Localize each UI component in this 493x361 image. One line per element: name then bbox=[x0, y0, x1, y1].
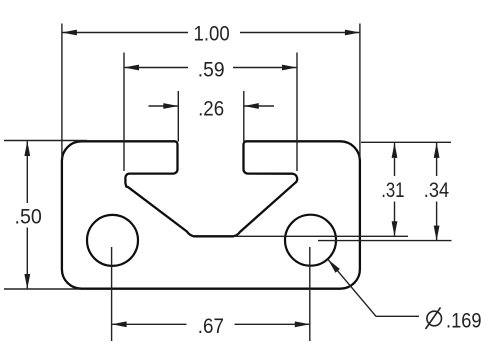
arrow .50 top bbox=[24, 141, 30, 156]
extension line .26 left bbox=[177, 91, 179, 142]
dimension line .26 right shaft bbox=[244, 105, 274, 107]
dimension line .59 bbox=[125, 67, 188, 69]
dimension line .67 bbox=[112, 323, 186, 325]
extension line .34 bottom (hole centre plane) bbox=[318, 240, 452, 242]
svg-text:.34: .34 bbox=[424, 178, 449, 202]
svg-text:.31: .31 bbox=[381, 178, 404, 202]
arrow .34 top bbox=[434, 143, 440, 158]
extension line .31 bottom (slot bottom plane) bbox=[234, 235, 408, 237]
extension line .59 left bbox=[123, 53, 125, 172]
arrow .34 bottom bbox=[434, 226, 440, 241]
arrow leader (points up-left to hole edge) bbox=[328, 259, 340, 272]
extension line top right (for .31 and .34) bbox=[361, 141, 451, 143]
arrow .59 left bbox=[124, 65, 139, 71]
dimension line 1.00 bbox=[63, 32, 189, 34]
extension line .50 top bbox=[4, 140, 87, 142]
svg-text:.67: .67 bbox=[198, 314, 224, 338]
profile outline (extrusion cross-section with T-slot) bbox=[62, 141, 360, 288]
arrow .31 top bbox=[392, 143, 398, 158]
arrowheads bbox=[24, 30, 439, 328]
arrow .59 right bbox=[282, 65, 297, 71]
svg-text:.169: .169 bbox=[446, 309, 482, 333]
arrow .26 left (points right) bbox=[163, 103, 178, 109]
arrow .50 bottom bbox=[24, 274, 30, 289]
svg-text:1.00: 1.00 bbox=[194, 21, 230, 45]
dimension line .50 bbox=[26, 141, 28, 203]
extension line .50 bottom bbox=[4, 288, 80, 290]
arrow .26 right (points left) bbox=[244, 103, 259, 109]
leader line for hole diameter bbox=[328, 259, 419, 316]
diameter symbol bbox=[426, 308, 442, 330]
arrow 1.00 right bbox=[345, 30, 360, 36]
arrow .67 left bbox=[112, 321, 127, 327]
svg-text:.59: .59 bbox=[198, 57, 225, 81]
hole right bbox=[285, 215, 336, 266]
extension line .67 right bbox=[309, 247, 311, 341]
extension line .67 left bbox=[111, 247, 113, 341]
svg-text:.26: .26 bbox=[198, 97, 224, 121]
dimension line .26 left shaft bbox=[149, 105, 178, 107]
dimension line .34 bbox=[436, 143, 438, 176]
extension line 1.00 left bbox=[61, 24, 63, 159]
extension line .59 right bbox=[296, 53, 298, 172]
extension line 1.00 right bbox=[359, 24, 361, 159]
dimension line .31 bbox=[394, 143, 396, 176]
arrow 1.00 left bbox=[62, 30, 77, 36]
extension line .26 right bbox=[243, 91, 245, 142]
arrow .67 right bbox=[295, 321, 310, 327]
svg-text:.50: .50 bbox=[15, 204, 42, 228]
arrow .31 bottom bbox=[392, 221, 398, 236]
hole left bbox=[87, 215, 138, 266]
